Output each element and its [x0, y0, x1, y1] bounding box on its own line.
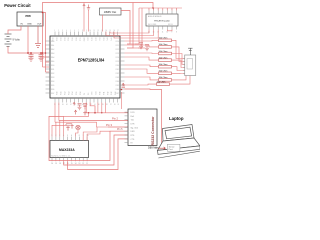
svg-text:40: 40 — [98, 104, 100, 106]
ground symbol below regulator — [35, 26, 41, 48]
svg-text:RE0: RE0 — [51, 38, 53, 41]
svg-text:Pin 2: Pin 2 — [112, 117, 118, 121]
ground symbol above MAX233A — [83, 111, 87, 116]
svg-text:4: 4 — [63, 135, 64, 137]
svg-text:RF1: RF1 — [90, 38, 92, 41]
MCU pins top — [55, 32, 117, 37]
svg-text:DCD: DCD — [131, 112, 136, 114]
wire MCU TX to RS232 pin1 — [86, 103, 128, 113]
svg-text:RD2: RD2 — [116, 73, 119, 75]
wire drops MCU bottom to pin1 line — [98, 103, 106, 113]
svg-text:RG2: RG2 — [64, 91, 66, 95]
svg-text:RH2: RH2 — [107, 92, 109, 95]
svg-text:RD6: RD6 — [116, 89, 119, 91]
svg-text:RG6: RG6 — [80, 91, 82, 95]
wire crystal to MAX pin — [75, 130, 78, 137]
wire long bus pin2 — [59, 120, 128, 122]
wire second rail branch — [43, 13, 46, 73]
svg-text:D0 D1 VSS: D0 D1 VSS — [148, 24, 156, 26]
capacitor C1 to ground — [29, 53, 34, 61]
svg-text:37: 37 — [110, 104, 112, 106]
encoder U3 top-right IC — [146, 14, 178, 26]
svg-text:RF4: RF4 — [102, 38, 104, 41]
encoder pin numbers — [148, 9, 177, 33]
wire wrap C under MAX233A — [68, 139, 128, 170]
MCU pins bottom — [55, 98, 117, 103]
svg-text:T2o R2i C+ V- GND V+ C2-: T2o R2i C+ V- GND V+ C2- — [51, 155, 71, 157]
svg-text:RD4: RD4 — [116, 81, 119, 83]
svg-text:13: 13 — [79, 163, 81, 165]
svg-text:RG1: RG1 — [61, 91, 63, 95]
svg-text:RB2: RB2 — [51, 73, 54, 75]
svg-text:13: 13 — [102, 30, 104, 32]
label Serial Port — [169, 145, 175, 151]
wire MAX233A top right pins up — [83, 127, 128, 141]
svg-text:Pin 5: Pin 5 — [117, 128, 123, 131]
crystal circle above MAX233A — [76, 125, 80, 129]
resistor R3 — [159, 51, 172, 55]
svg-text:RS232 Connector: RS232 Connector — [151, 116, 155, 146]
capacitor cluster right of MCU — [139, 43, 149, 51]
svg-text:RF2: RF2 — [94, 38, 96, 41]
capacitor pair above MAX233A — [66, 124, 74, 130]
svg-text:RC3: RC3 — [116, 53, 119, 55]
wire MCU pin to laptop serial — [125, 89, 162, 148]
power arrow symbol VCC at MCU top — [83, 4, 85, 9]
svg-text:RH1: RH1 — [103, 92, 105, 95]
resistor R5 — [159, 64, 172, 68]
svg-text:RG5: RG5 — [76, 91, 78, 95]
MCU pin name text right column — [116, 41, 119, 95]
svg-text:15: 15 — [71, 163, 73, 165]
svg-text:17: 17 — [117, 30, 119, 32]
svg-text:RF6: RF6 — [110, 38, 112, 41]
wire rail x133 — [127, 3, 133, 49]
svg-text:47: 47 — [70, 104, 72, 106]
svg-text:48: 48 — [66, 104, 68, 106]
svg-text:OUT: OUT — [37, 24, 42, 26]
resistor R4 — [159, 57, 172, 61]
svg-text:RE5: RE5 — [71, 38, 73, 41]
svg-text:RA3: RA3 — [51, 52, 54, 55]
junction dot branch — [42, 12, 44, 14]
svg-text:RC5: RC5 — [116, 61, 119, 63]
resistor R7 — [159, 77, 172, 81]
svg-text:5: 5 — [67, 135, 68, 137]
svg-text:Serial: Serial — [169, 145, 175, 148]
wire MCU pin drop to RS232 top — [121, 92, 123, 109]
junction dot left rails — [42, 52, 44, 54]
svg-text:39: 39 — [102, 104, 104, 106]
svg-text:RD5: RD5 — [116, 85, 119, 87]
laptop drawing — [158, 125, 201, 159]
svg-text:RG4: RG4 — [72, 91, 74, 95]
MAX233A pins top — [52, 137, 87, 141]
svg-text:11: 11 — [162, 31, 164, 33]
svg-text:10: 10 — [90, 30, 92, 32]
ground symbol at MCU top — [87, 5, 90, 11]
svg-text:EPM7128SL/84: EPM7128SL/84 — [78, 58, 105, 63]
MCU pin name text left column — [51, 40, 54, 95]
svg-text:14: 14 — [75, 163, 77, 165]
svg-text:RE6: RE6 — [75, 38, 77, 41]
svg-text:7: 7 — [75, 135, 76, 137]
wire VCC top bus — [43, 3, 154, 68]
svg-text:18: 18 — [59, 163, 61, 165]
svg-text:RB7: RB7 — [51, 93, 54, 95]
MCU pins right — [120, 41, 125, 93]
svg-text:RB3: RB3 — [51, 77, 54, 79]
svg-text:RA2: RA2 — [51, 48, 54, 51]
svg-text:RF5: RF5 — [106, 38, 108, 41]
wire wrap A under MAX233A — [49, 116, 128, 160]
svg-text:Pin 3: Pin 3 — [106, 123, 112, 127]
svg-text:RE1: RE1 — [55, 38, 57, 41]
svg-text:HT12E Encoder: HT12E Encoder — [154, 20, 170, 23]
svg-text:RC0: RC0 — [116, 41, 119, 43]
junction dot bus x41 — [40, 52, 42, 54]
svg-text:RG3: RG3 — [68, 91, 70, 95]
resistor R1 — [159, 38, 172, 42]
svg-text:35: 35 — [118, 104, 120, 106]
RS232 connector J1 — [128, 109, 157, 146]
oscillator X1 box — [100, 8, 122, 15]
microcontroller U1 EPM7128SLC84 — [50, 36, 120, 98]
svg-text:10MHz Osc: 10MHz Osc — [104, 11, 117, 14]
svg-text:RE3: RE3 — [63, 38, 65, 41]
svg-text:RA5: RA5 — [51, 60, 54, 63]
svg-text:Sig. Gnd: Sig. Gnd — [131, 127, 138, 129]
wire encoder bottom pins routing — [106, 30, 172, 39]
wire stub to MCU left pins — [43, 56, 50, 58]
svg-text:Laptop: Laptop — [169, 116, 184, 121]
resistor R2 — [159, 44, 172, 48]
wire oscillator output to MCU clock pin — [102, 15, 104, 32]
junction dot bus x31 — [30, 52, 32, 54]
junction dot laptop wire — [121, 89, 123, 91]
svg-text:RF0: RF0 — [86, 38, 88, 41]
svg-text:Power Circuit: Power Circuit — [4, 3, 31, 8]
capacitor C2 to ground — [39, 53, 44, 61]
svg-text:DB9 Male: DB9 Male — [148, 147, 159, 150]
svg-text:11: 11 — [94, 30, 96, 32]
MAX233A U4 — [50, 141, 89, 158]
svg-text:RxD: RxD — [131, 116, 135, 118]
capacitor and ground cluster under MCU — [73, 102, 87, 110]
svg-text:10: 10 — [166, 31, 168, 33]
svg-text:DTR: DTR — [131, 124, 136, 126]
wire battery to regulator IN — [8, 26, 21, 34]
svg-text:RG0: RG0 — [57, 91, 59, 95]
svg-text:8: 8 — [79, 135, 80, 137]
MCU pins left — [46, 41, 51, 93]
svg-text:RD1: RD1 — [116, 69, 119, 71]
wire top bus to encoder pins — [139, 8, 182, 11]
wire to caps cluster right — [130, 44, 145, 48]
svg-text:RH3: RH3 — [111, 92, 113, 95]
wire resistors to RF module — [170, 40, 191, 84]
svg-text:RA4: RA4 — [51, 56, 54, 59]
svg-text:RD0: RD0 — [116, 65, 119, 67]
wire MCU bottom pin drops left — [55, 103, 59, 123]
svg-text:RH4: RH4 — [115, 92, 117, 95]
svg-text:RB1: RB1 — [51, 69, 54, 71]
RS232 pins left — [125, 112, 129, 143]
wire wrap B under MAX233A — [64, 135, 128, 165]
wire pin3 line — [108, 126, 128, 128]
svg-text:RB6: RB6 — [51, 89, 54, 91]
svg-text:RD3: RD3 — [116, 77, 119, 79]
MAX233A pins bottom — [52, 158, 87, 162]
svg-text:38: 38 — [106, 104, 108, 106]
svg-text:RA1: RA1 — [51, 44, 54, 47]
junction dot bus x28 — [27, 52, 29, 54]
svg-text:1: 1 — [52, 135, 53, 137]
svg-text:D2 D3: D2 D3 — [168, 24, 173, 26]
serial port box on laptop — [167, 144, 180, 151]
svg-text:RH0: RH0 — [100, 92, 102, 95]
wire encoder rails down left — [135, 8, 142, 48]
wire oscillator right to vertical rails — [121, 11, 130, 45]
svg-text:9 Volts: 9 Volts — [13, 39, 21, 42]
resistor R8 — [157, 81, 170, 85]
encoder pins top — [149, 11, 177, 15]
svg-text:19: 19 — [55, 163, 57, 165]
RF module ANT1 — [183, 55, 195, 76]
MAX233A pin numbers top — [52, 135, 89, 137]
MAX233A pin numbers bottom — [51, 163, 88, 165]
battery B1 9V — [5, 34, 12, 47]
svg-text:36: 36 — [114, 104, 116, 106]
wire battery negative to ground bus — [8, 47, 46, 54]
voltage regulator U2 7805 — [17, 12, 43, 26]
svg-text:Port: Port — [169, 148, 173, 151]
wire MCU top power drops — [83, 3, 85, 5]
svg-text:12: 12 — [82, 163, 84, 165]
svg-text:GND: GND — [27, 24, 32, 26]
MCU pin name text bottom row — [57, 91, 118, 95]
svg-text:12: 12 — [98, 30, 100, 32]
svg-text:11: 11 — [86, 163, 88, 165]
wire MCU RX loop — [90, 103, 95, 113]
MCU pin name text top row — [51, 38, 112, 43]
arrow serial port — [158, 147, 165, 150]
junction dots pin1 line — [88, 112, 90, 114]
svg-text:RE2: RE2 — [59, 38, 61, 41]
power arrow above MAX233A — [74, 110, 76, 114]
svg-text:RC2: RC2 — [116, 49, 119, 51]
wire regulator GND down — [27, 26, 29, 53]
svg-text:RE4: RE4 — [67, 38, 69, 41]
svg-text:RB5: RB5 — [51, 85, 54, 87]
svg-text:RC4: RC4 — [116, 57, 119, 59]
wire fan from MAX233A top pins — [52, 113, 108, 137]
capacitor symbol at MCU lower right pin — [122, 83, 126, 87]
svg-text:MAX233A: MAX233A — [59, 148, 75, 152]
svg-text:7805: 7805 — [25, 14, 31, 18]
svg-text:RB0: RB0 — [51, 65, 54, 67]
MCU pin numbers outside — [54, 30, 119, 106]
resistor R6 — [159, 71, 172, 75]
svg-text:RB4: RB4 — [51, 81, 54, 83]
wire MCU right pins to resistors — [125, 40, 159, 85]
svg-text:49: 49 — [62, 104, 64, 106]
encoder pins bottom — [149, 26, 177, 30]
wire stub2 to MCU left pins — [46, 61, 50, 63]
antenna symbol — [188, 48, 192, 55]
svg-text:2: 2 — [55, 135, 56, 137]
svg-text:3: 3 — [59, 135, 60, 137]
svg-text:RC1: RC1 — [116, 45, 119, 47]
svg-text:20: 20 — [51, 163, 53, 165]
svg-text:6: 6 — [71, 135, 72, 137]
svg-text:DSR: DSR — [131, 131, 136, 133]
